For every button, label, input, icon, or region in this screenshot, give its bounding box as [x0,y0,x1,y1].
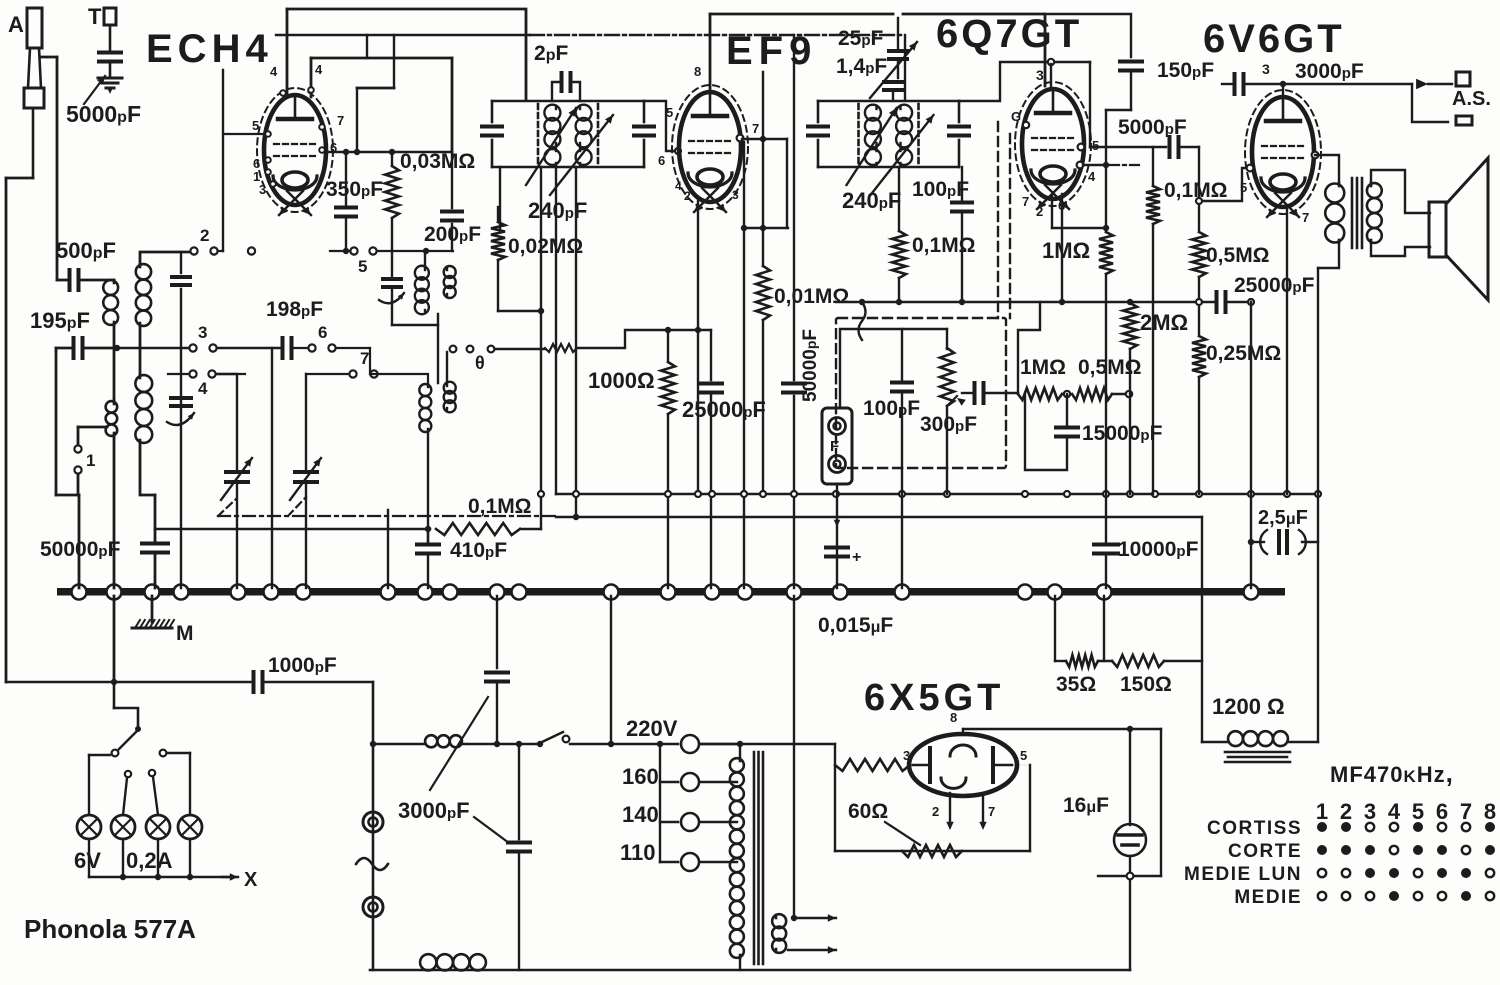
svg-text:M: M [176,622,194,645]
svg-text:410pF: 410pF [450,539,507,562]
svg-text:1: 1 [86,451,95,470]
svg-text:160: 160 [622,764,659,789]
svg-text:140: 140 [622,802,659,827]
svg-text:6V6GT: 6V6GT [1203,17,1345,61]
svg-text:110: 110 [620,840,656,865]
svg-text:3: 3 [1262,61,1270,77]
svg-text:50000pF: 50000pF [40,538,121,561]
svg-text:6: 6 [330,140,337,155]
svg-text:25000pF: 25000pF [682,397,766,422]
svg-text:5: 5 [252,118,259,133]
svg-text:5: 5 [1240,180,1247,195]
svg-text:X: X [244,869,258,891]
svg-text:150Ω: 150Ω [1120,673,1172,696]
svg-text:6V: 6V [74,848,101,873]
svg-text:Phonola 577A: Phonola 577A [24,914,196,944]
svg-text:0,03MΩ: 0,03MΩ [400,150,475,173]
svg-text:CORTISS: CORTISS [1207,818,1302,839]
svg-text:7: 7 [1022,194,1029,209]
svg-text:0,015μF: 0,015μF [818,614,893,637]
svg-text:7: 7 [988,804,995,819]
svg-text:3: 3 [1036,67,1044,83]
svg-text:4: 4 [315,62,323,77]
svg-text:5: 5 [358,257,367,276]
svg-text:6Q7GT: 6Q7GT [936,12,1082,56]
svg-text:240pF: 240pF [528,198,587,223]
svg-text:15000pF: 15000pF [1082,422,1163,445]
svg-text:195pF: 195pF [30,308,90,333]
svg-text:2,5μF: 2,5μF [1258,507,1308,529]
svg-text:1MΩ: 1MΩ [1042,238,1090,263]
svg-text:6: 6 [1058,198,1065,213]
svg-text:7: 7 [1302,210,1309,225]
svg-text:2MΩ: 2MΩ [1140,310,1188,335]
svg-text:16μF: 16μF [1063,794,1109,817]
svg-text:3: 3 [1364,799,1376,824]
svg-text:3000pF: 3000pF [1295,60,1364,83]
svg-text:2: 2 [684,189,691,203]
svg-text:F: F [830,438,839,455]
svg-text:2: 2 [200,226,209,245]
svg-text:7: 7 [337,113,344,128]
svg-text:1000pF: 1000pF [268,654,337,677]
svg-text:25000pF: 25000pF [1234,274,1315,297]
svg-text:6: 6 [658,153,665,168]
svg-text:MEDIE: MEDIE [1234,887,1302,908]
svg-text:4: 4 [270,64,278,79]
svg-text:5: 5 [666,105,673,120]
svg-text:198pF: 198pF [266,298,323,321]
svg-text:3: 3 [903,748,910,763]
svg-text:+: + [852,549,861,566]
svg-text:2: 2 [1036,204,1043,219]
svg-text:CORTE: CORTE [1228,841,1302,862]
svg-text:35Ω: 35Ω [1056,673,1096,696]
svg-text:3: 3 [259,182,266,197]
svg-text:0,1MΩ: 0,1MΩ [912,234,976,257]
svg-text:3: 3 [732,188,739,202]
svg-text:0,01MΩ: 0,01MΩ [774,285,849,308]
svg-text:MF470KHz,: MF470KHz, [1330,758,1454,788]
svg-text:1000Ω: 1000Ω [588,368,655,393]
svg-text:5000pF: 5000pF [66,101,141,127]
svg-text:EF9: EF9 [726,29,817,73]
svg-text:10000pF: 10000pF [1118,538,1199,561]
svg-text:8: 8 [694,64,701,79]
svg-text:0,5MΩ: 0,5MΩ [1206,244,1270,267]
svg-text:1200 Ω: 1200 Ω [1212,694,1285,719]
svg-text:4: 4 [1388,799,1401,824]
svg-text:7: 7 [752,121,759,136]
svg-text:θ: θ [475,353,485,373]
svg-text:7: 7 [1460,799,1472,824]
svg-text:7: 7 [360,349,369,368]
svg-text:0,1MΩ: 0,1MΩ [468,495,532,518]
svg-text:A: A [8,12,24,37]
svg-text:4: 4 [675,179,682,193]
svg-text:6: 6 [1436,799,1448,824]
svg-text:25pF: 25pF [838,27,884,50]
svg-text:6: 6 [318,323,327,342]
svg-text:500pF: 500pF [56,238,116,263]
svg-text:A.S.: A.S. [1452,88,1491,110]
svg-text:0,2A: 0,2A [126,848,173,873]
svg-text:6X5GT: 6X5GT [864,677,1004,719]
svg-text:100pF: 100pF [912,178,969,201]
svg-text:8: 8 [1484,799,1496,824]
svg-text:1,4pF: 1,4pF [836,55,887,78]
svg-text:60Ω: 60Ω [848,800,888,823]
svg-text:2: 2 [932,804,939,819]
svg-text:2: 2 [1340,799,1352,824]
svg-text:0,02MΩ: 0,02MΩ [508,235,583,258]
svg-text:5: 5 [1020,748,1027,763]
svg-text:0,25MΩ: 0,25MΩ [1206,342,1281,365]
svg-text:G: G [1011,109,1021,124]
svg-text:T: T [88,4,102,29]
svg-text:5: 5 [1412,799,1424,824]
svg-text:240pF: 240pF [842,188,901,213]
svg-text:1MΩ: 1MΩ [1020,356,1066,379]
svg-text:ECH4: ECH4 [146,27,273,71]
svg-text:MEDIE LUN: MEDIE LUN [1184,864,1302,885]
svg-text:100pF: 100pF [863,397,920,420]
svg-text:5: 5 [1092,138,1099,153]
svg-text:3: 3 [198,323,207,342]
svg-text:4: 4 [198,379,208,398]
svg-text:150pF: 150pF [1157,59,1214,82]
svg-text:350pF: 350pF [326,178,383,201]
svg-text:300pF: 300pF [920,413,977,436]
svg-text:0,5MΩ: 0,5MΩ [1078,356,1142,379]
svg-text:1: 1 [1316,799,1328,824]
svg-text:3000pF: 3000pF [398,798,470,823]
svg-text:220V: 220V [626,716,678,741]
svg-text:4: 4 [1088,169,1096,184]
svg-text:8: 8 [950,710,957,725]
